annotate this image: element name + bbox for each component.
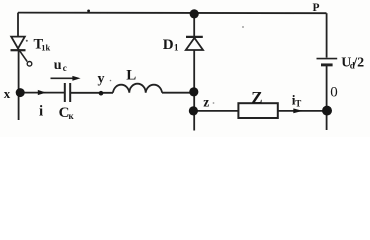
svg-text:1: 1	[174, 43, 179, 53]
svg-text:c: c	[63, 63, 67, 73]
svg-text:T: T	[295, 99, 301, 109]
svg-text:x: x	[4, 86, 11, 101]
svg-text:u: u	[54, 58, 62, 73]
svg-text:i: i	[39, 104, 43, 120]
svg-text:1k: 1k	[41, 43, 50, 53]
svg-text:D: D	[163, 37, 174, 53]
svg-text:z: z	[203, 95, 209, 110]
svg-text:L: L	[126, 68, 136, 84]
svg-text:к: к	[69, 111, 75, 121]
svg-text:0: 0	[330, 85, 338, 101]
svg-text:P: P	[313, 2, 320, 14]
svg-text:y: y	[98, 71, 105, 86]
svg-text:Z: Z	[251, 88, 262, 107]
svg-text:/2: /2	[352, 55, 364, 70]
